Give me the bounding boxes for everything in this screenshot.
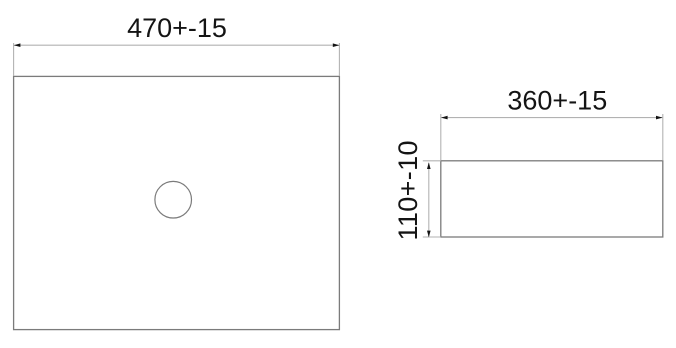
drain hole circle bbox=[155, 181, 192, 218]
top view rectangle (basin outline) bbox=[14, 76, 340, 329]
extension tick top of 110 dimension bbox=[423, 160, 441, 162]
arrowhead top of 110 dimension bbox=[427, 162, 431, 169]
side view rectangle bbox=[441, 161, 663, 237]
arrowhead right of 360 dimension bbox=[656, 116, 663, 120]
svg-text:110+-10: 110+-10 bbox=[393, 140, 423, 240]
arrowhead right of 470 dimension bbox=[333, 43, 340, 47]
dimension line 360 bbox=[441, 117, 662, 119]
extension tick bottom of 110 dimension bbox=[423, 236, 441, 238]
arrowhead bottom of 110 dimension bbox=[427, 231, 431, 238]
svg-text:470+-15: 470+-15 bbox=[127, 13, 227, 43]
dimension line 110 bbox=[428, 163, 430, 237]
arrowhead left of 470 dimension bbox=[14, 43, 21, 47]
extension line right of 470 dimension bbox=[338, 43, 340, 76]
extension line left of 360 dimension bbox=[440, 114, 442, 160]
extension line left of 470 dimension bbox=[13, 43, 15, 76]
arrowhead left of 360 dimension bbox=[441, 116, 448, 120]
extension line right of 360 dimension bbox=[662, 114, 664, 160]
svg-text:360+-15: 360+-15 bbox=[507, 86, 607, 116]
dimension line 470 bbox=[14, 44, 339, 46]
